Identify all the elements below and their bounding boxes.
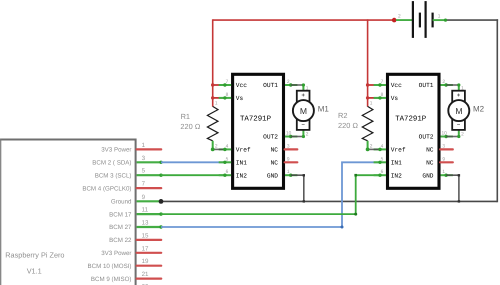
svg-text:OUT1: OUT1 <box>263 82 278 89</box>
svg-text:Vs: Vs <box>236 95 244 102</box>
motor M1 + leg (green) <box>302 85 304 91</box>
svg-text:NC: NC <box>271 160 279 167</box>
svg-text:8: 8 <box>226 92 229 98</box>
junction dot on VCC rail at battery positive <box>392 18 397 23</box>
svg-text:Vref: Vref <box>236 147 251 154</box>
battery BAT1 <box>396 1 446 38</box>
U2 pin 2 OUT1 <box>419 79 453 89</box>
pin 13 BCM 27 leg <box>109 220 163 232</box>
svg-text:Raspberry Pi Zero: Raspberry Pi Zero <box>5 251 64 260</box>
svg-text:IN2: IN2 <box>391 172 402 179</box>
svg-text:+: + <box>301 92 305 99</box>
U2 pin 7 Vcc <box>374 79 403 89</box>
svg-text:BCM 17: BCM 17 <box>109 211 132 218</box>
U1 pin 1 GND <box>267 169 298 179</box>
U2 pin 4 Vref <box>374 143 406 153</box>
svg-text:BCM 22: BCM 22 <box>109 237 132 244</box>
svg-text:9: 9 <box>142 194 146 201</box>
svg-text:GND: GND <box>267 172 278 179</box>
resistor R2 220 ohm <box>362 101 373 151</box>
svg-text:R1: R1 <box>181 112 190 121</box>
svg-text:TA7291P: TA7291P <box>395 115 427 123</box>
svg-text:2: 2 <box>215 143 218 149</box>
wire BCM3 to IC1 IN2 (green) <box>161 174 225 176</box>
battery plate short 2 <box>432 13 434 28</box>
pin 15 BCM 22 (unconnected) <box>109 232 161 244</box>
wire VCC top rail (red) to battery positive <box>213 19 395 21</box>
svg-text:21: 21 <box>142 271 149 278</box>
pin 1 3V3 Power (unconnected) <box>101 142 161 154</box>
U1 pin 6 IN2 <box>219 169 248 179</box>
svg-text:Vs: Vs <box>391 95 399 102</box>
svg-text:7: 7 <box>381 79 384 85</box>
Raspberry Pi Zero module body <box>0 139 136 285</box>
U1 pin 2 OUT1 <box>263 79 297 89</box>
wire BCM 27 to IC2 IN1 (blue) <box>161 162 380 227</box>
svg-text:BCM 4 (GPCLK0): BCM 4 (GPCLK0) <box>82 185 131 192</box>
svg-text:1: 1 <box>370 101 373 107</box>
svg-text:OUT2: OUT2 <box>419 134 434 141</box>
svg-text:2: 2 <box>306 132 309 138</box>
U1 pin 8 Vs <box>219 92 244 102</box>
svg-text:2: 2 <box>442 79 445 85</box>
U1 pin 9 NC (unconnected) <box>271 156 298 166</box>
svg-text:BCM 9 (MISO): BCM 9 (MISO) <box>91 276 132 283</box>
svg-text:1: 1 <box>461 86 464 92</box>
svg-text:15: 15 <box>142 232 149 239</box>
U1 pin 10 OUT2 <box>263 131 297 141</box>
svg-text:9: 9 <box>442 156 445 162</box>
svg-text:BCM 2 ( SDA): BCM 2 ( SDA) <box>92 160 131 167</box>
svg-text:NC: NC <box>426 147 434 154</box>
battery plate long 1 <box>412 1 414 38</box>
junction dot at battery negative <box>444 19 447 22</box>
svg-text:5: 5 <box>142 168 146 175</box>
svg-text:7: 7 <box>226 79 229 85</box>
wire U2 OUT1 to motor M2 + (dark) <box>446 84 459 86</box>
U1 pin 3 NC (unconnected) <box>271 143 298 153</box>
U2 pin 10 OUT2 <box>419 131 453 141</box>
wire red to IC2 Vcc <box>368 84 380 86</box>
svg-text:M: M <box>455 106 462 116</box>
wire R1 to U1 Vref (dark) <box>213 148 226 150</box>
wire IC2 GND to ground rail (dark) <box>446 175 459 201</box>
svg-text:TA7291P: TA7291P <box>240 115 272 123</box>
svg-text:BCM 27: BCM 27 <box>109 224 132 231</box>
svg-text:1: 1 <box>142 142 146 149</box>
motor M2 body <box>448 86 469 138</box>
svg-text:M2: M2 <box>473 105 485 114</box>
pin 3 BCM 2 (SDA) leg <box>92 155 162 167</box>
pin 17 3V3 Power (unconnected) <box>101 245 161 257</box>
svg-text:IN1: IN1 <box>391 160 402 167</box>
U1 pin 4 Vref <box>219 143 251 153</box>
svg-text:9: 9 <box>287 156 290 162</box>
svg-text:1: 1 <box>438 13 441 19</box>
svg-text:OUT1: OUT1 <box>419 82 434 89</box>
svg-text:8: 8 <box>381 92 384 98</box>
svg-text:19: 19 <box>142 258 149 265</box>
U2 pin 8 Vs <box>374 92 399 102</box>
motor M2 - leg (green) <box>458 130 460 137</box>
pin 9 Ground leg <box>111 194 161 206</box>
battery plate long 2 <box>425 1 427 38</box>
svg-text:GND: GND <box>422 172 433 179</box>
motor M1 - leg (green) <box>302 130 304 137</box>
wire red to IC1 Vcc <box>213 84 225 86</box>
svg-text:3: 3 <box>142 155 146 162</box>
svg-text:7: 7 <box>142 181 146 188</box>
wire battery negative down right edge <box>496 19 498 202</box>
pin 19 BCM 10 (MOSI) (unconnected) <box>87 258 161 270</box>
svg-text:+: + <box>457 92 461 99</box>
resistor R1 220 ohm <box>207 101 218 151</box>
svg-text:NC: NC <box>426 160 434 167</box>
svg-text:−: − <box>301 122 305 129</box>
wire red to IC2 Vs <box>368 97 380 99</box>
svg-text:2: 2 <box>370 143 373 149</box>
svg-text:6: 6 <box>226 169 229 175</box>
junction dot at RPi ground pin <box>159 199 164 204</box>
svg-text:IN2: IN2 <box>236 172 247 179</box>
svg-text:10: 10 <box>286 131 292 137</box>
U2 pin 9 NC (unconnected) <box>426 156 453 166</box>
svg-text:2: 2 <box>398 13 401 19</box>
svg-text:−: − <box>457 122 461 129</box>
battery positive lead <box>396 19 413 21</box>
battery plate short 1 <box>419 13 421 28</box>
svg-text:1: 1 <box>215 101 218 107</box>
svg-text:IN1: IN1 <box>236 160 247 167</box>
svg-text:BCM 3 (SCL): BCM 3 (SCL) <box>95 172 132 179</box>
svg-text:1: 1 <box>287 169 290 175</box>
wire U1 OUT1 to motor M1 + (dark) <box>291 84 304 86</box>
svg-text:1: 1 <box>442 169 445 175</box>
motor M1 body <box>293 86 314 138</box>
svg-text:Vref: Vref <box>391 147 406 154</box>
motor M2 + leg (green) <box>458 85 460 91</box>
wire red vertical drop to IC1 / R1 <box>212 19 214 106</box>
svg-text:NC: NC <box>271 147 279 154</box>
U1 pin 5 IN1 <box>219 156 248 166</box>
pin 11 BCM 17 leg <box>109 207 163 219</box>
svg-text:3: 3 <box>442 143 445 149</box>
svg-text:M: M <box>300 106 307 116</box>
svg-text:3: 3 <box>287 143 290 149</box>
svg-text:220 Ω: 220 Ω <box>180 122 200 131</box>
svg-text:1: 1 <box>306 86 309 92</box>
svg-text:220 Ω: 220 Ω <box>338 121 358 130</box>
svg-text:3V3 Power: 3V3 Power <box>101 147 131 154</box>
U2 pin 5 IN1 <box>374 156 403 166</box>
svg-text:11: 11 <box>142 207 149 214</box>
U2 pin 6 IN2 <box>374 169 403 179</box>
battery negative lead <box>433 19 446 21</box>
svg-text:10: 10 <box>442 131 448 137</box>
wire BCM 17 to IC2 IN2 (green) <box>161 175 380 214</box>
pin 5 BCM 3 (SCL) leg <box>95 168 163 180</box>
svg-text:5: 5 <box>226 156 229 162</box>
svg-text:OUT2: OUT2 <box>263 134 278 141</box>
pin 7 BCM 4 (GPCLK0) (unconnected) <box>82 181 161 193</box>
bendpoint dot green wire <box>354 213 357 216</box>
svg-text:Vcc: Vcc <box>236 82 247 89</box>
motor driver U2 TA7291P body <box>388 74 440 188</box>
svg-text:Ground: Ground <box>111 199 132 206</box>
wire R2 to U2 Vref (dark) <box>368 148 381 150</box>
svg-text:6: 6 <box>381 169 384 175</box>
svg-text:BCM 10 (MOSI): BCM 10 (MOSI) <box>87 263 131 270</box>
svg-text:2: 2 <box>287 79 290 85</box>
wire motor M2 - to U2 OUT2 (dark) <box>446 136 459 138</box>
wire motor M1 - to U1 OUT2 (dark) <box>291 136 304 138</box>
wire BCM2 to IC1 IN1 (blue) <box>161 161 225 163</box>
pin 21 BCM 9 (MISO) (unconnected) <box>91 271 161 285</box>
motor driver U1 TA7291P body <box>233 74 284 188</box>
svg-text:2: 2 <box>461 132 464 138</box>
wire battery negative horizontal <box>446 19 499 21</box>
U2 pin 1 GND <box>422 169 453 179</box>
U2 pin 3 NC (unconnected) <box>426 143 453 153</box>
svg-text:Vcc: Vcc <box>391 82 402 89</box>
svg-text:13: 13 <box>142 220 149 227</box>
svg-text:R2: R2 <box>338 111 347 120</box>
svg-text:17: 17 <box>142 245 149 252</box>
svg-text:M1: M1 <box>318 105 330 114</box>
wire red vertical drop to IC2 / R2 <box>367 19 369 106</box>
svg-text:3V3 Power: 3V3 Power <box>101 250 131 257</box>
wire IC1 GND to ground rail (dark) <box>291 175 304 201</box>
svg-text:V1.1: V1.1 <box>27 267 42 276</box>
svg-text:5: 5 <box>381 156 384 162</box>
ground rail (dark) from RPi pin9 to right edge column <box>161 200 497 202</box>
wire red to IC1 Vs <box>213 97 225 99</box>
U1 pin 7 Vcc <box>219 79 248 89</box>
